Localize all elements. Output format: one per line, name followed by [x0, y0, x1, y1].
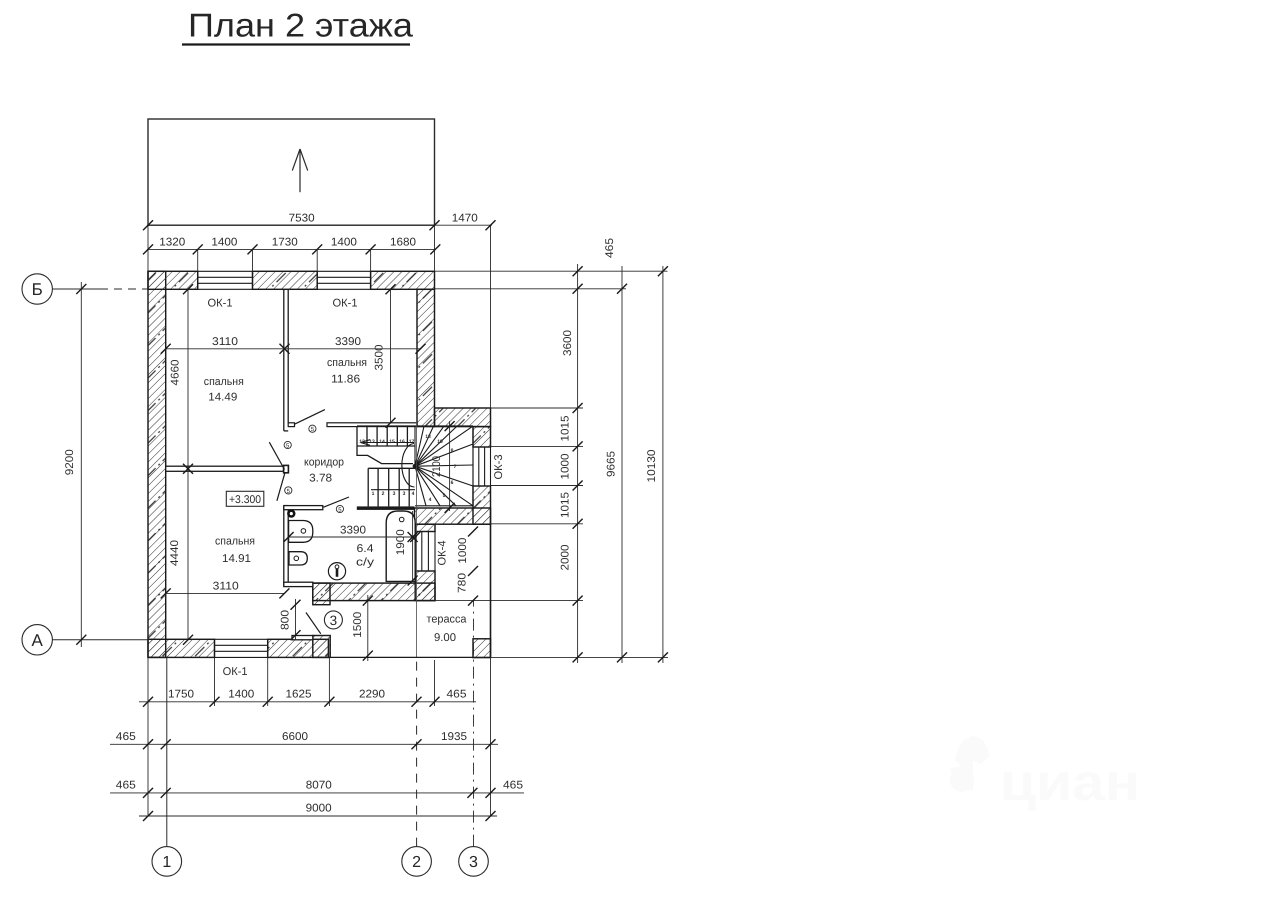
chain line — [577, 264, 579, 663]
svg-text:коридор: коридор — [304, 456, 344, 468]
elevation mark +3.300 — [226, 491, 263, 506]
axis 3 circle — [459, 601, 489, 877]
svg-text:17: 17 — [409, 439, 415, 445]
terrace east edge — [490, 524, 492, 657]
bedroom2 east wall — [417, 289, 435, 426]
svg-text:1680: 1680 — [390, 237, 416, 249]
svg-text:ОК-1: ОК-1 — [333, 298, 358, 310]
svg-text:465: 465 — [116, 780, 136, 792]
1500 line — [367, 595, 369, 661]
roof outline rectangle over terrace-balcony — [148, 119, 435, 225]
svg-text:спальня: спальня — [215, 535, 255, 547]
3390 b2 line — [285, 348, 421, 350]
title underline — [182, 43, 410, 45]
door tag 5 bedroom1 — [284, 441, 291, 449]
svg-text:4440: 4440 — [169, 540, 181, 566]
svg-text:ОК-1: ОК-1 — [223, 666, 248, 678]
svg-text:1625: 1625 — [286, 689, 312, 701]
svg-text:13: 13 — [369, 439, 375, 445]
3390 bath line — [289, 536, 416, 538]
svg-text:3: 3 — [403, 491, 406, 497]
svg-text:14.49: 14.49 — [208, 391, 237, 403]
svg-text:3: 3 — [393, 491, 396, 497]
partition bedroom2 south / corridor stub — [327, 423, 417, 427]
bold dash-dot accents inside walls — [148, 271, 491, 657]
top wall segment 3 — [371, 271, 435, 289]
axis 2 circle — [402, 420, 432, 876]
ext top outer — [435, 270, 668, 272]
door leaf terrace — [306, 613, 321, 634]
window OK-1 top east — [317, 271, 370, 289]
door leaf bathroom — [324, 497, 350, 507]
bathtub — [386, 511, 415, 581]
door leaf vestibule — [277, 473, 285, 501]
svg-text:8: 8 — [451, 448, 454, 454]
svg-text:6: 6 — [451, 480, 454, 486]
svg-text:3390: 3390 — [335, 336, 361, 348]
door leaf bedroom2 — [295, 410, 325, 425]
toilet — [289, 552, 307, 565]
tread numbers upper flight — [359, 434, 456, 503]
bathroom west wall — [284, 506, 288, 587]
svg-text:465: 465 — [116, 731, 136, 743]
3110 b1 line — [166, 348, 284, 350]
svg-text:3600: 3600 — [562, 330, 574, 356]
4660-4440 line — [187, 289, 189, 640]
upper flight treads — [357, 426, 415, 446]
door tag 5 bedroom2 — [309, 425, 316, 433]
row A — [139, 701, 476, 703]
walk line with down arrow — [361, 440, 416, 490]
svg-text:19: 19 — [437, 439, 443, 445]
bottom wall segment east — [268, 639, 329, 657]
svg-text:с/у: с/у — [356, 557, 375, 569]
svg-text:3: 3 — [330, 613, 338, 628]
washbasin drain — [301, 529, 306, 534]
svg-text:1: 1 — [162, 854, 171, 871]
svg-text:6.4: 6.4 — [357, 543, 374, 555]
svg-text:14.91: 14.91 — [222, 553, 251, 565]
bathtub drain — [399, 517, 404, 522]
svg-text:1015: 1015 — [560, 416, 572, 442]
svg-text:1400: 1400 — [331, 237, 357, 249]
stair opening top edge — [357, 425, 473, 427]
ext bottom — [491, 656, 669, 658]
ext stairwell south — [491, 523, 584, 525]
svg-text:3110: 3110 — [213, 581, 239, 593]
dim row 7530-1470 — [147, 225, 492, 408]
svg-text:780: 780 — [457, 573, 469, 593]
ext bath south — [435, 600, 583, 602]
terrace south edge — [328, 656, 490, 658]
svg-text:циан: циан — [1000, 754, 1140, 812]
upper flight first tread notch — [357, 426, 413, 464]
svg-text:7: 7 — [454, 464, 457, 470]
1900 line — [412, 511, 414, 582]
svg-text:1730: 1730 — [272, 237, 298, 249]
door tag 5 bathroom — [336, 505, 343, 513]
ext window ok3 top — [491, 445, 584, 447]
washbasin — [289, 521, 313, 543]
svg-text:3: 3 — [469, 854, 478, 871]
axis B circle — [22, 274, 148, 304]
svg-text:спальня: спальня — [327, 357, 367, 369]
bathroom east wall above window OK-4 — [415, 524, 435, 531]
svg-text:1000: 1000 — [560, 454, 572, 480]
svg-text:1750: 1750 — [168, 689, 194, 701]
10130 line — [662, 266, 664, 663]
partition junction cap — [284, 465, 289, 472]
svg-text:1400: 1400 — [211, 237, 237, 249]
3500 line — [390, 289, 392, 423]
svg-text:800: 800 — [280, 610, 292, 630]
svg-text:Б: Б — [32, 280, 43, 299]
svg-text:2290: 2290 — [359, 689, 385, 701]
svg-text:терасса: терасса — [427, 614, 468, 626]
svg-text:2: 2 — [382, 491, 385, 497]
bathroom east wall below window OK-4 — [415, 571, 435, 601]
door tag 3 terrace — [324, 611, 342, 629]
svg-text:9200: 9200 — [64, 449, 76, 475]
landing south edge bar — [357, 506, 415, 510]
3110 b3 line — [166, 592, 285, 594]
bathroom south wall band — [313, 583, 435, 601]
svg-text:4660: 4660 — [170, 360, 182, 386]
svg-text:2100: 2100 — [431, 456, 443, 477]
svg-text:2000: 2000 — [560, 545, 572, 571]
svg-text:1: 1 — [372, 491, 375, 497]
stair center node — [413, 464, 418, 469]
ext stair wall — [491, 407, 584, 409]
thin lip near terrace door — [292, 636, 313, 640]
row C — [110, 792, 524, 794]
floor drain symbol — [328, 563, 345, 580]
stairwell east wall above window OK-3 — [473, 427, 491, 447]
window OK-3 in stairwell east wall — [473, 447, 491, 486]
axis 1 circle — [152, 657, 182, 876]
top wall segment 1 — [148, 271, 198, 289]
svg-text:9665: 9665 — [606, 451, 618, 477]
svg-text:14: 14 — [379, 439, 385, 445]
svg-text:16: 16 — [399, 439, 405, 445]
svg-text:1900: 1900 — [395, 529, 407, 555]
door leaf bedroom1 — [269, 442, 284, 469]
bathroom north wall — [284, 506, 323, 510]
svg-text:3390: 3390 — [340, 525, 366, 537]
row D — [139, 815, 497, 817]
svg-text:1400: 1400 — [228, 689, 254, 701]
9665 line — [621, 266, 623, 663]
axis A circle — [22, 625, 148, 655]
svg-text:1320: 1320 — [159, 237, 185, 249]
svg-text:3110: 3110 — [212, 336, 238, 348]
svg-text:4: 4 — [429, 497, 432, 503]
svg-text:4: 4 — [412, 491, 415, 497]
svg-text:11.86: 11.86 — [331, 373, 360, 385]
svg-text:9000: 9000 — [306, 803, 332, 815]
800 line — [295, 599, 297, 640]
door tag 5 vestibule — [285, 487, 292, 495]
window OK-4 in bathroom east wall — [415, 532, 435, 572]
watermark cian logo — [950, 736, 989, 792]
bathroom south thin wall — [284, 582, 313, 586]
svg-text:спальня: спальня — [204, 376, 244, 388]
stairwell north wall band — [435, 408, 491, 427]
winder fan steps — [415, 426, 473, 506]
lower flight treads — [368, 468, 415, 506]
svg-text:3.78: 3.78 — [309, 473, 332, 485]
svg-text:5: 5 — [443, 493, 446, 499]
svg-text:12: 12 — [359, 439, 365, 445]
bottom wall segment west — [148, 639, 215, 657]
window OK-1 top west — [198, 271, 253, 289]
svg-text:465: 465 — [447, 689, 467, 701]
window OK-1 bottom — [215, 639, 268, 657]
svg-text:7530: 7530 — [289, 213, 315, 225]
toilet drain — [294, 556, 299, 561]
svg-text:1935: 1935 — [441, 731, 467, 743]
partition bedroom2 south (door cap piece at wall) — [288, 423, 294, 427]
svg-text:3500: 3500 — [374, 345, 386, 371]
svg-text:10130: 10130 — [646, 450, 658, 483]
svg-text:9.00: 9.00 — [434, 632, 456, 644]
9200 dim line — [80, 282, 82, 647]
svg-text:8070: 8070 — [306, 780, 332, 792]
svg-text:ОК-4: ОК-4 — [437, 541, 449, 566]
north direction arrow — [292, 149, 307, 192]
svg-text:ОК-3: ОК-3 — [493, 455, 505, 480]
bathroom south wall west end block — [313, 583, 330, 605]
svg-text:План 2 этажа: План 2 этажа — [188, 7, 414, 44]
row B — [110, 743, 498, 745]
svg-text:18: 18 — [425, 434, 431, 440]
svg-text:465: 465 — [503, 780, 523, 792]
svg-text:2: 2 — [412, 854, 421, 871]
svg-text:ОК-1: ОК-1 — [208, 298, 233, 310]
svg-text:1500: 1500 — [352, 612, 364, 638]
partition bedroom1/bedroom2/corridor west — [284, 289, 288, 431]
svg-text:6600: 6600 — [282, 731, 308, 743]
svg-text:А: А — [32, 631, 44, 650]
terrace corner post — [473, 639, 491, 658]
svg-text:15: 15 — [389, 439, 395, 445]
stairwell east wall below window OK-3 — [473, 486, 491, 524]
plumbing riser symbol — [288, 511, 294, 517]
stairwell south wall band — [415, 508, 491, 524]
left outer wall — [148, 271, 166, 657]
svg-text:+3.300: +3.300 — [229, 494, 261, 506]
svg-text:1470: 1470 — [452, 213, 478, 225]
svg-text:465: 465 — [604, 238, 616, 258]
top wall segment 2 (between windows) — [253, 271, 318, 289]
svg-text:1000: 1000 — [457, 538, 469, 564]
svg-text:1015: 1015 — [560, 492, 572, 518]
ext window ok3 bottom — [491, 485, 584, 487]
partition bedroom1 south — [166, 466, 284, 471]
ext top inner — [435, 288, 627, 290]
bottom wall corner block at terrace door — [313, 636, 330, 658]
2100 line — [449, 421, 451, 511]
